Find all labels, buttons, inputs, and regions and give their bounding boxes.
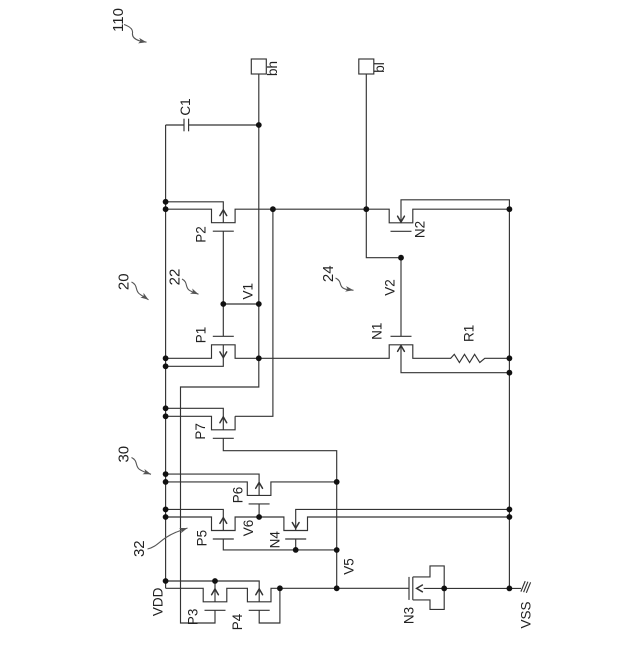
svg-text:P1: P1 <box>194 327 209 344</box>
svg-text:V1: V1 <box>240 283 255 300</box>
svg-text:N1: N1 <box>370 323 385 340</box>
svg-text:bh: bh <box>265 61 280 76</box>
svg-text:N3: N3 <box>402 607 417 624</box>
svg-text:bl: bl <box>372 62 387 73</box>
svg-text:30: 30 <box>115 446 132 463</box>
svg-text:N2: N2 <box>413 221 428 238</box>
svg-text:P4: P4 <box>230 613 245 630</box>
svg-text:VSS: VSS <box>518 601 533 628</box>
svg-text:24: 24 <box>320 265 337 282</box>
svg-text:VDD: VDD <box>150 587 165 616</box>
svg-text:22: 22 <box>167 269 184 286</box>
svg-text:P3: P3 <box>185 609 200 626</box>
svg-text:32: 32 <box>131 540 148 557</box>
svg-text:P2: P2 <box>194 226 209 243</box>
svg-text:V6: V6 <box>241 520 256 537</box>
svg-text:N4: N4 <box>268 531 283 549</box>
svg-text:20: 20 <box>115 273 132 290</box>
svg-text:P7: P7 <box>193 423 208 440</box>
svg-text:P5: P5 <box>195 530 210 547</box>
svg-text:110: 110 <box>110 8 127 32</box>
svg-text:V2: V2 <box>383 279 398 296</box>
svg-text:C1: C1 <box>178 98 193 115</box>
svg-text:R1: R1 <box>462 325 477 342</box>
svg-text:P6: P6 <box>231 487 246 504</box>
svg-text:V5: V5 <box>341 558 356 575</box>
